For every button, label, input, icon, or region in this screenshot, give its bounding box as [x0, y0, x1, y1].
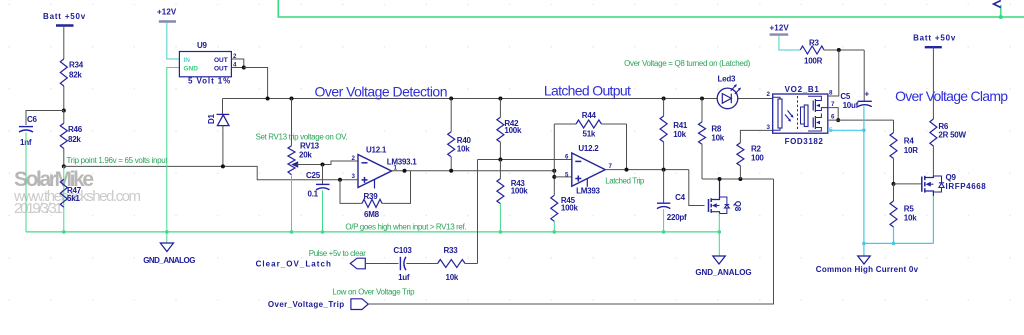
svg-text:6: 6	[831, 113, 835, 120]
svg-text:C4: C4	[675, 193, 686, 202]
svg-text:Q8: Q8	[733, 201, 742, 212]
wire R4 to gate node	[893, 158, 895, 184]
transistor Q9 IRFP4668	[922, 173, 986, 196]
wire R43 to gnd (green)	[499, 204, 501, 232]
svg-text:3: 3	[767, 124, 771, 131]
resistor R5 10k	[890, 201, 917, 227]
wire R40 to output line	[450, 157, 452, 171]
svg-text:LM393.1: LM393.1	[387, 158, 418, 167]
wire R39 to output	[382, 171, 411, 204]
wire gate node to Q9	[894, 183, 922, 185]
svg-text:Over Voltage = Q8 turned on (L: Over Voltage = Q8 turned on (Latched)	[624, 59, 750, 68]
svg-text:D1: D1	[207, 113, 216, 124]
svg-text:Batt +50v: Batt +50v	[43, 12, 86, 21]
resistor R47 5k1	[60, 179, 81, 207]
op-amp U12.2 LM393	[565, 144, 613, 196]
resistor R46 82k	[60, 123, 82, 148]
svg-text:U12.1: U12.1	[366, 146, 387, 155]
svg-text:Led3: Led3	[718, 75, 736, 84]
junction bus at RV13	[290, 97, 294, 101]
wire junction to C5	[863, 50, 865, 101]
node Clear_OV_Latch port	[256, 258, 366, 269]
svg-text:1uf: 1uf	[398, 273, 410, 282]
wire bus to RV13 top	[291, 99, 293, 146]
junction bus at U9	[266, 97, 270, 101]
svg-text:Low on Over Voltage Trip: Low on Over Voltage Trip	[332, 288, 415, 297]
wire pin6 line to R4	[828, 119, 894, 121]
resistor R44 51k	[554, 111, 626, 139]
junction green bus at R45	[553, 230, 557, 234]
node pin5 junction	[552, 175, 556, 179]
wire R42 to divider node	[499, 142, 501, 159]
resistor R40 10k	[448, 132, 472, 157]
resistor R41 10k	[660, 116, 688, 142]
capacitor C4 220pf	[657, 193, 687, 222]
svg-text:10uf: 10uf	[843, 101, 859, 110]
svg-text:10k: 10k	[446, 273, 459, 282]
optocoupler VO2_B1 FOD3182	[773, 85, 828, 146]
svg-text:C25: C25	[306, 171, 321, 180]
junction bus at R41	[662, 97, 666, 101]
wire pin5 to common (cyan)	[828, 129, 864, 131]
node Q8 drain junction	[718, 177, 722, 181]
wire bus corner to D1	[222, 99, 224, 115]
node R2 junction	[738, 177, 742, 181]
svg-text:10k: 10k	[904, 214, 917, 223]
wire R33 to riser	[465, 263, 477, 265]
svg-text:5k1: 5k1	[67, 194, 80, 203]
wire node A to C6	[26, 111, 64, 126]
wire C6 to gnd bus (green net)	[25, 133, 27, 232]
capacitor C6 1nf	[19, 115, 38, 147]
junction green bus at R47	[62, 230, 66, 234]
node pin7 / R44 junction	[625, 168, 629, 172]
wire U9 GND to green bus	[167, 68, 180, 232]
wire bus to R41	[663, 99, 665, 117]
wire pin5 stub	[554, 176, 572, 178]
svg-text:R5: R5	[904, 205, 915, 214]
wire R4 riser	[893, 120, 895, 133]
node divider junction	[498, 158, 502, 162]
wire R5 to common (cyan)	[893, 227, 895, 243]
svg-text:R34: R34	[69, 61, 84, 70]
svg-text:Common High Current 0v: Common High Current 0v	[816, 265, 919, 274]
svg-text:10k: 10k	[673, 130, 686, 139]
resistor R39 6M8	[362, 192, 382, 219]
wire R8 to drive line	[701, 144, 703, 179]
wire R44 right riser	[626, 124, 628, 170]
resistor R45 100k	[551, 195, 579, 221]
power +12V (right)	[770, 24, 790, 35]
svg-text:5: 5	[565, 171, 569, 178]
ground Common High Current 0v symbol	[816, 243, 919, 274]
potentiometer RV13 20k	[288, 142, 320, 175]
svg-text:Clear_OV_Latch: Clear_OV_Latch	[256, 260, 331, 269]
wire R44 left riser	[553, 124, 555, 195]
svg-text:6: 6	[565, 153, 569, 160]
wire latched line to Q8 gate	[689, 170, 705, 206]
wire R34 to node A	[63, 86, 65, 111]
svg-text:+: +	[865, 90, 870, 99]
regulator U9 5 Volt 1%	[179, 41, 231, 86]
svg-text:FOD3182: FOD3182	[785, 137, 824, 146]
wire bus LED to opto	[738, 98, 773, 100]
wire bus to R42	[499, 99, 501, 118]
svg-text:Latched Trip: Latched Trip	[605, 177, 645, 186]
svg-text:IRFP4668: IRFP4668	[946, 182, 987, 191]
wire R6 to Q9 drain	[932, 146, 934, 176]
svg-text:82k: 82k	[69, 71, 82, 80]
op-amp U12.1 LM393.1	[352, 146, 418, 189]
svg-text:5 Volt 1%: 5 Volt 1%	[188, 77, 230, 86]
node output pin1 junction	[403, 169, 407, 173]
power +12V (left)	[157, 8, 177, 22]
svg-text:Trip point 1.96v = 65 volts in: Trip point 1.96v = 65 volts input	[67, 156, 169, 165]
svg-text:2: 2	[767, 91, 771, 98]
wire R2 to drive line	[739, 166, 741, 179]
svg-text:100k: 100k	[504, 126, 522, 135]
svg-text:R33: R33	[444, 246, 459, 255]
resistor R2 100	[737, 130, 773, 165]
wire GND_ANALOG green bus	[26, 231, 719, 233]
node U12.1 out / R44 junction	[552, 169, 556, 173]
svg-text:U9: U9	[197, 41, 208, 50]
svg-text:R6: R6	[938, 122, 949, 131]
node R41/latched junction	[662, 168, 666, 172]
capacitor C5 10uf	[840, 90, 871, 110]
wire Batt to R6	[932, 47, 934, 119]
svg-text:+12V: +12V	[157, 8, 177, 17]
svg-text:Over_Voltage_Trip: Over_Voltage_Trip	[268, 300, 344, 309]
svg-text:10R: 10R	[904, 146, 918, 155]
svg-text:10k: 10k	[457, 145, 470, 154]
svg-text:R41: R41	[673, 121, 688, 130]
svg-text:Pulse +5v to clear: Pulse +5v to clear	[309, 249, 366, 258]
svg-text:R8: R8	[711, 125, 722, 134]
capacitor C25 0.1	[306, 171, 330, 199]
wire common high current bus (cyan)	[863, 242, 934, 244]
wire node A to R46	[63, 111, 65, 124]
svg-text:100k: 100k	[561, 204, 579, 213]
svg-text:Over Voltage Clamp: Over Voltage Clamp	[895, 88, 1008, 104]
svg-text:7: 7	[831, 101, 835, 108]
svg-text:+12V: +12V	[770, 24, 790, 33]
wire divider to R43	[499, 160, 501, 179]
svg-text:LM393: LM393	[576, 187, 600, 196]
wire latched output line	[605, 169, 689, 171]
wire Batt+50v to R34	[63, 26, 65, 60]
wire Q9 source to common (cyan)	[932, 196, 934, 243]
ground GND_ANALOG symbol right	[695, 232, 751, 277]
wire trip node to comparator (with jog)	[64, 166, 358, 179]
wire pin7 to pin6 tie	[828, 108, 838, 121]
junction green bus at U9 gnd	[165, 230, 169, 234]
watermark SolarMike	[13, 168, 141, 217]
junction green bus at R43	[499, 230, 503, 234]
svg-text:Q9: Q9	[946, 173, 957, 182]
wire port to C103	[365, 263, 398, 265]
svg-text:51k: 51k	[583, 130, 596, 139]
node D1/trip junction	[221, 164, 225, 168]
wire D1 anode to trip wire	[222, 126, 224, 167]
resistor R8 10k	[699, 122, 725, 144]
resistor R34 82k	[60, 59, 83, 86]
node pin6/7 junction	[836, 118, 840, 122]
svg-text:U12.2: U12.2	[578, 144, 599, 153]
svg-text:R44: R44	[582, 111, 597, 120]
node R40/output junction	[449, 169, 453, 173]
diode D1	[207, 113, 229, 125]
node off-page arrow	[994, 1, 1001, 8]
junction green bus at RV13	[290, 230, 294, 234]
power Batt +50v (left)	[43, 12, 86, 26]
wire R47 to gnd (green net under R47)	[63, 166, 65, 232]
wire R41 to latched line	[663, 142, 665, 170]
svg-text:82k: 82k	[68, 135, 81, 144]
junction bus at R42	[498, 97, 502, 101]
svg-text:Set RV13 trip voltage on OV.: Set RV13 trip voltage on OV.	[256, 133, 348, 142]
wire latched line to C4	[663, 170, 665, 204]
node gate junction	[892, 182, 896, 186]
wire RV13 wiper to U12.1 pin2	[297, 164, 323, 166]
svg-text:2R 50W: 2R 50W	[938, 131, 966, 140]
node A junction	[62, 109, 66, 113]
LED Led3	[717, 75, 741, 109]
wire R8 column	[701, 99, 703, 122]
wire off-page riser (green)	[1000, 5, 1002, 17]
capacitor C103 1uf	[393, 246, 412, 282]
svg-text:R2: R2	[751, 145, 762, 154]
svg-text:VO2_B1: VO2_B1	[785, 85, 820, 94]
junction green bus at C25	[321, 230, 325, 234]
resistor R6 2R 50W	[930, 119, 967, 146]
node pin3 input junction	[338, 178, 342, 182]
wire divider line to U12.2 pin6	[478, 159, 572, 161]
svg-text:Batt +50v: Batt +50v	[913, 34, 956, 43]
resistor R3 100R	[800, 39, 824, 66]
svg-text:RV13: RV13	[300, 142, 320, 151]
node top rail junction	[999, 15, 1003, 19]
node wiper/C25 junction	[321, 163, 325, 167]
svg-text:1: 1	[394, 164, 398, 171]
junction green bus at C4	[662, 230, 666, 234]
junction green bus at Q8 source	[718, 230, 722, 234]
node Over_Voltage_Trip port	[268, 299, 368, 310]
wire bus to R40	[450, 99, 452, 132]
svg-text:OUT: OUT	[214, 57, 228, 64]
svg-text:GND: GND	[184, 65, 199, 72]
svg-text:2: 2	[352, 155, 356, 162]
node trip point junction	[62, 164, 66, 168]
ground GND_ANALOG symbol left	[143, 232, 195, 265]
wire R3 to pin8/C5	[824, 49, 864, 51]
wire +12V to R3 (cyan)	[779, 36, 800, 51]
svg-text:8: 8	[829, 89, 833, 96]
transistor Q8	[709, 179, 742, 214]
svg-text:3: 3	[352, 173, 356, 180]
wire pin3 node down to R39	[340, 180, 362, 204]
svg-text:6M8: 6M8	[364, 210, 380, 219]
resistor R33 10k	[438, 246, 466, 282]
wire drive line to Over_Voltage_Trip	[368, 179, 773, 304]
svg-text:R3: R3	[809, 39, 820, 48]
wire junction down to pin8	[828, 50, 839, 96]
wire C103 to R33	[406, 263, 437, 265]
svg-text:C6: C6	[27, 115, 38, 124]
svg-text:100R: 100R	[804, 57, 823, 66]
wire U9 outputs tied	[231, 59, 243, 68]
svg-text:GND_ANALOG: GND_ANALOG	[695, 268, 751, 277]
svg-text:Latched Output: Latched Output	[544, 82, 631, 98]
wire Q8 source to gnd (green)	[718, 214, 720, 232]
wire junction down to C25	[322, 165, 324, 185]
svg-text:100k: 100k	[511, 187, 529, 196]
wire R46 to trip node	[63, 149, 65, 167]
resistor R4 10R	[890, 133, 918, 159]
wire RV13 bottom to gnd (green)	[291, 176, 293, 232]
wire C25 to gnd (green)	[322, 190, 324, 232]
wire U9 out to 5v bus	[244, 68, 268, 99]
svg-text:C103: C103	[393, 246, 412, 255]
node R3 junction	[837, 48, 841, 52]
junction bus at R8	[700, 97, 704, 101]
wire 5v reference bus	[223, 98, 718, 100]
wire R5 column	[893, 184, 895, 201]
svg-text:Over Voltage Detection: Over Voltage Detection	[315, 84, 448, 100]
svg-text:0.1: 0.1	[308, 190, 319, 199]
node common at C5 riser	[862, 242, 866, 246]
power Batt +50v (right)	[913, 34, 956, 48]
junction bus at R40	[449, 97, 453, 101]
svg-text:10k: 10k	[711, 134, 724, 143]
node common at R5	[892, 242, 896, 246]
svg-text:R39: R39	[364, 192, 379, 201]
svg-text:100: 100	[751, 154, 764, 163]
svg-text:C5: C5	[840, 92, 851, 101]
wire U12.1 output line	[392, 170, 555, 172]
wire C5 to common bus (cyan riser)	[863, 106, 865, 243]
wire clear-latch riser	[477, 160, 479, 264]
svg-text:7: 7	[609, 163, 613, 170]
wire R45 to gnd (green)	[553, 221, 555, 232]
wire drive line (R8/Q8/R2)	[702, 178, 774, 180]
resistor R42 100k	[497, 117, 522, 142]
resistor R43 100k	[497, 179, 528, 204]
node pin5/common junction	[862, 129, 866, 133]
wire +12V to U9 IN (cyan net)	[167, 23, 180, 60]
svg-text:2019/3/31: 2019/3/31	[14, 200, 63, 217]
svg-text:R4: R4	[904, 136, 915, 145]
svg-text:IN: IN	[184, 57, 191, 64]
svg-text:OUT: OUT	[214, 65, 228, 72]
svg-text:O/P goes high when input > RV1: O/P goes high when input > RV13 ref.	[345, 222, 466, 231]
wire +12v top rail (green)	[278, 0, 1024, 17]
wire C4 to gnd (green)	[663, 209, 665, 232]
svg-text:220pf: 220pf	[667, 213, 687, 222]
svg-text:R46: R46	[68, 125, 83, 134]
svg-text:GND_ANALOG: GND_ANALOG	[143, 256, 195, 265]
svg-text:20k: 20k	[299, 151, 312, 160]
junction U9 out	[242, 66, 246, 70]
